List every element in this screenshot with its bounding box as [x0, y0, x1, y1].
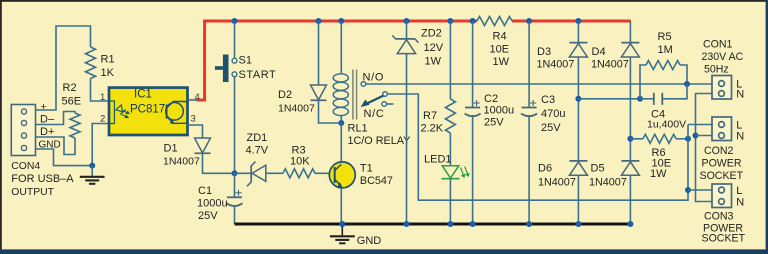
svg-text:SOCKET: SOCKET — [702, 233, 746, 245]
svg-text:N: N — [736, 197, 744, 209]
svg-text:RL1: RL1 — [348, 123, 368, 135]
svg-text:25V: 25V — [198, 210, 218, 222]
svg-text:SOCKET: SOCKET — [700, 170, 744, 182]
svg-text:S1: S1 — [239, 55, 252, 67]
svg-text:D1: D1 — [164, 143, 178, 155]
svg-text:D6: D6 — [538, 163, 552, 175]
svg-text:2.2K: 2.2K — [421, 123, 444, 135]
svg-text:N/C: N/C — [364, 108, 385, 120]
svg-text:ZD2: ZD2 — [421, 28, 442, 40]
svg-text:1N4007: 1N4007 — [589, 177, 627, 189]
svg-text:1N4007: 1N4007 — [537, 59, 575, 71]
svg-text:IC1: IC1 — [134, 88, 152, 100]
svg-text:R5: R5 — [658, 31, 672, 43]
svg-text:R1: R1 — [101, 54, 115, 66]
svg-text:D3: D3 — [537, 46, 551, 58]
svg-text:L: L — [736, 185, 742, 197]
svg-text:1000u: 1000u — [197, 198, 228, 210]
svg-text:1N4007: 1N4007 — [278, 103, 315, 115]
svg-text:56E: 56E — [62, 96, 82, 108]
svg-text:CON2: CON2 — [704, 145, 734, 157]
svg-text:D2: D2 — [278, 89, 292, 101]
svg-text:R7: R7 — [423, 110, 437, 122]
svg-text:1M: 1M — [658, 44, 673, 56]
svg-text:N: N — [736, 89, 744, 101]
svg-text:BC547: BC547 — [360, 175, 393, 187]
svg-text:START: START — [239, 69, 277, 81]
svg-text:1N4007: 1N4007 — [591, 59, 629, 71]
svg-text:D5: D5 — [591, 163, 605, 175]
svg-text:CON3: CON3 — [704, 211, 734, 223]
svg-text:GND: GND — [357, 235, 382, 247]
svg-text:CON4: CON4 — [11, 161, 40, 172]
svg-text:1N4007: 1N4007 — [538, 177, 576, 189]
svg-text:R2: R2 — [63, 82, 77, 94]
svg-text:1N4007: 1N4007 — [163, 156, 200, 168]
svg-text:1C/O RELAY: 1C/O RELAY — [348, 135, 411, 147]
svg-text:ZD1: ZD1 — [247, 132, 268, 144]
svg-text:C3: C3 — [541, 94, 555, 106]
svg-text:50Hz: 50Hz — [704, 64, 729, 76]
svg-text:1u,400V: 1u,400V — [647, 119, 686, 131]
svg-text:2: 2 — [100, 114, 105, 125]
svg-text:10K: 10K — [290, 156, 310, 168]
svg-text:10E: 10E — [490, 44, 510, 56]
svg-text:LED1: LED1 — [424, 154, 452, 166]
svg-text:12V: 12V — [424, 42, 444, 54]
svg-text:25V: 25V — [484, 117, 504, 129]
svg-text:PC817: PC817 — [130, 104, 165, 116]
svg-text:230V AC: 230V AC — [702, 51, 744, 63]
svg-text:R4: R4 — [493, 31, 507, 43]
svg-text:FOR USB–A: FOR USB–A — [11, 173, 74, 185]
svg-text:470u: 470u — [541, 108, 565, 120]
svg-text:1W: 1W — [650, 168, 667, 180]
svg-text:1W: 1W — [425, 56, 442, 68]
svg-text:N/O: N/O — [363, 72, 385, 84]
svg-text:GND: GND — [39, 140, 61, 151]
svg-text:+: + — [41, 101, 47, 113]
svg-text:C2: C2 — [484, 93, 498, 105]
svg-text:1000u: 1000u — [484, 105, 515, 117]
svg-text:D4: D4 — [592, 46, 606, 58]
svg-text:4.7V: 4.7V — [246, 145, 269, 157]
svg-text:1K: 1K — [101, 67, 115, 79]
svg-text:OUTPUT: OUTPUT — [11, 187, 54, 198]
svg-text:CON1: CON1 — [703, 39, 733, 51]
svg-text:D+: D+ — [40, 126, 54, 138]
svg-text:N: N — [736, 131, 744, 143]
svg-text:POWER: POWER — [702, 158, 742, 170]
svg-text:1: 1 — [100, 92, 105, 103]
svg-text:C1: C1 — [198, 185, 212, 197]
svg-text:D–: D– — [40, 114, 55, 126]
svg-text:25V: 25V — [541, 122, 561, 134]
svg-text:1W: 1W — [493, 56, 510, 68]
svg-text:T1: T1 — [360, 163, 373, 175]
svg-text:3: 3 — [191, 114, 196, 125]
